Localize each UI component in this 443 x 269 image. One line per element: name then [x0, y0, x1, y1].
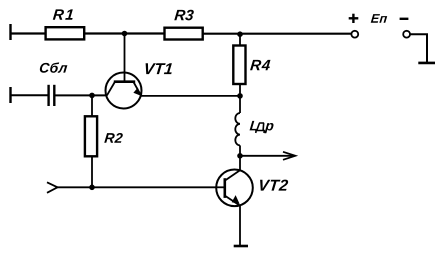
wire (VT1 emitter to R4 bottom) [141, 95, 240, 97]
input arrow [47, 182, 58, 193]
label Сбл [40, 62, 68, 72]
label R1 [53, 9, 73, 19]
wire (VT2 emitter down) [239, 206, 241, 247]
output arrow [240, 152, 295, 160]
ground bar [234, 245, 248, 248]
wire [56, 94, 107, 96]
wire [85, 32, 165, 34]
transistor VT1 [106, 34, 142, 109]
node B (R4 top junction) [237, 31, 243, 37]
node A (R1/R3 junction, VT1 base) [122, 31, 128, 37]
capacitor Сбл [47, 85, 49, 106]
label + [349, 17, 359, 19]
terminal bar (minus return) [418, 62, 435, 65]
node F (R2 bottom junction) [89, 185, 95, 191]
wire (inductor to node E) [239, 145, 241, 156]
label VT1 [146, 63, 172, 74]
wire (VT2 collector up to node E) [239, 156, 241, 171]
wire (R2 to bottom rail) [91, 156, 93, 188]
wire (input to VT2 base) [57, 186, 217, 188]
node C (cap/R2/VT1 junction) [89, 93, 95, 99]
terminal bar mid-left [9, 87, 11, 103]
label R2 [104, 133, 123, 143]
label Lдр [250, 121, 274, 133]
resistor R2 [85, 116, 97, 156]
wire [10, 94, 49, 96]
wire [10, 32, 47, 34]
label minus [400, 18, 409, 20]
transistor VT2 [216, 170, 253, 207]
node E (Lдр bottom / VT2 collector / output) [237, 153, 243, 159]
terminal bar top-left [9, 24, 11, 40]
wire (node D to inductor) [239, 96, 241, 113]
label R4 [250, 60, 270, 70]
resistor R1 [46, 27, 85, 39]
node D (R4 bottom / VT1 emitter / Lдр top) [237, 93, 243, 99]
wire (minus terminal to bar) [410, 34, 427, 62]
minus terminal [403, 31, 410, 38]
plus terminal [351, 31, 358, 38]
resistor R4 [233, 46, 245, 85]
wire [203, 33, 352, 35]
label Eп [371, 14, 387, 23]
inductor Lдр [235, 113, 240, 145]
wire (R4 to node D) [239, 84, 241, 96]
wire (node C down to R2) [91, 95, 93, 116]
label VT2 [260, 180, 288, 191]
label R3 [174, 10, 194, 21]
wire (node B down to R4) [239, 34, 241, 46]
resistor R3 [165, 28, 203, 40]
